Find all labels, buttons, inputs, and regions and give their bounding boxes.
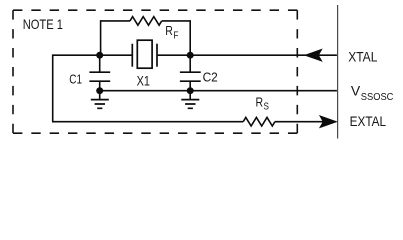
arrowhead toward chip on EXTAL pin: [320, 116, 336, 128]
capacitor C2 bottom lead through VSSOSC rail to ground: [189, 81, 191, 99]
svg-text:R: R: [256, 95, 264, 110]
crystal X1 right plate: [156, 44, 158, 67]
svg-text:R: R: [165, 23, 173, 38]
junction node A (top of C1): [96, 52, 103, 59]
wire XTAL node: left segment from corner to crystal left plate: [53, 54, 132, 56]
capacitor C2 plates: [180, 72, 201, 81]
ground symbol under C1: [91, 100, 109, 109]
crystal X1 body rectangle: [137, 40, 152, 68]
svg-text:XTAL: XTAL: [348, 49, 377, 65]
junction node C1/VSSOSC rail: [96, 87, 103, 94]
resistor RS zigzag body: [243, 117, 275, 126]
wire feedback loop left vertical (node A to resistor RF): [101, 21, 130, 55]
svg-text:SSOSC: SSOSC: [361, 92, 394, 103]
wire EXTAL node: from resistor RS to chip edge: [275, 121, 336, 123]
svg-text:NOTE 1: NOTE 1: [23, 16, 63, 32]
svg-text:EXTAL: EXTAL: [350, 113, 387, 129]
capacitor C2 top lead: [189, 55, 191, 71]
dashed enclosure NOTE 1 box : right edge: [296, 10, 298, 133]
resistor RF zigzag body: [130, 17, 162, 26]
dashed enclosure NOTE 1 box : left edge: [12, 10, 14, 133]
svg-text:V: V: [351, 82, 361, 98]
svg-text:C1: C1: [69, 71, 82, 86]
ground symbol under C2: [181, 100, 199, 109]
svg-text:C2: C2: [203, 70, 218, 85]
crystal X1 left plate: [131, 44, 133, 67]
capacitor C1 plates: [89, 72, 110, 81]
wire left branch vertical (XTAL to EXTAL corner): [52, 54, 54, 121]
wire feedback loop right vertical (resistor RF to node B): [162, 21, 191, 55]
arrowhead into box on XTAL pin: [305, 49, 321, 61]
capacitor C1 bottom lead through VSSOSC rail to ground: [99, 81, 101, 99]
wire XTAL node: right segment from crystal right plate to chip edge: [158, 54, 337, 56]
capacitor C1 top lead: [99, 55, 101, 71]
junction node C2/VSSOSC rail: [187, 87, 194, 94]
wire VSSOSC rail: [100, 90, 337, 92]
junction node B (top of C2): [187, 52, 194, 59]
svg-text:F: F: [173, 30, 178, 41]
dashed enclosure NOTE 1 box : top edge: [13, 9, 297, 11]
MCU chip edge line: [337, 5, 339, 139]
svg-text:X1: X1: [137, 73, 150, 88]
dashed enclosure NOTE 1 box : bottom edge: [13, 132, 297, 134]
svg-text:S: S: [264, 102, 270, 113]
wire EXTAL node: from corner to resistor RS: [52, 121, 243, 123]
